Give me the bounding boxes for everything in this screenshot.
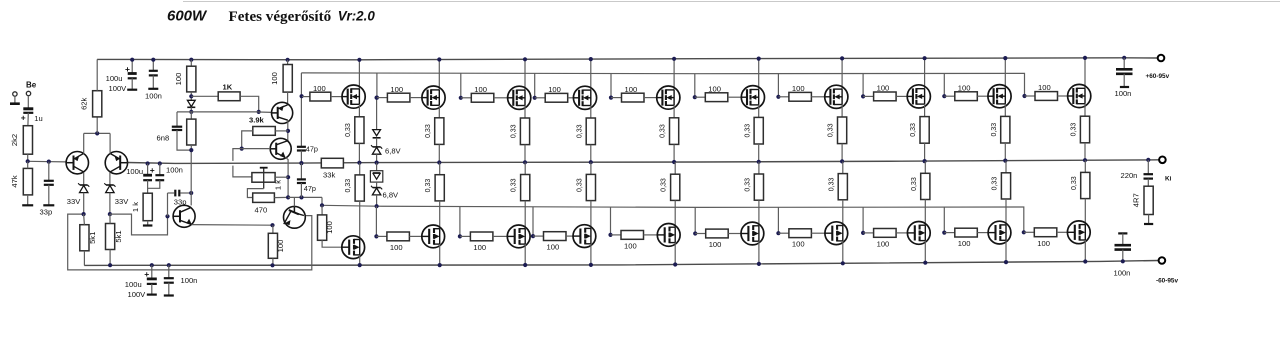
mosfet M5 top	[657, 86, 680, 109]
svg-text:+: +	[125, 64, 130, 74]
node 3.9k junction	[286, 129, 290, 133]
svg-text:0,33: 0,33	[511, 124, 518, 138]
wire source M7 bottom	[842, 161, 844, 173]
wire 0.33 to M6 bottom	[758, 200, 760, 226]
wire 0.33 to M10 bottom	[1084, 199, 1086, 225]
svg-text:0,33: 0,33	[911, 177, 918, 191]
resistor R 100 gate M8 bottom	[863, 229, 896, 238]
node gate M7 bottom	[776, 231, 780, 235]
node drain M9 bottom rail	[1004, 260, 1008, 264]
label 0,33 M2 bottom	[425, 179, 432, 193]
node NFB 100u	[146, 161, 150, 165]
wire source M9 bottom	[1005, 161, 1007, 173]
wire 0.33 M2 top to output	[438, 144, 440, 162]
label 0,33 M3 top	[511, 124, 518, 138]
svg-text:0,33: 0,33	[661, 178, 668, 192]
svg-text:100: 100	[792, 84, 805, 93]
label 33k	[323, 171, 335, 180]
resistor R 100 gate M7 top	[778, 92, 811, 101]
label 100u bottom	[125, 280, 142, 289]
wire Qc base	[293, 197, 295, 206]
wire drain M8 bottom	[924, 241, 926, 263]
svg-text:+60-95v: +60-95v	[1146, 73, 1170, 80]
zener D 33V left	[78, 173, 89, 215]
diode D VAS	[187, 92, 195, 112]
node M6 output rail	[757, 160, 761, 164]
wire bus drop M5 bottom	[610, 207, 612, 235]
capacitor C 33p input	[44, 162, 54, 205]
label title Vr:2.0	[338, 8, 376, 23]
label 1 k trimmer	[273, 180, 282, 190]
svg-text:2k2: 2k2	[10, 134, 19, 146]
wire 4R7 stub	[1144, 215, 1153, 225]
wire source M8 bottom	[924, 161, 926, 173]
wire 0.33 to M9 bottom	[1005, 199, 1007, 225]
resistor R 100 gate M5 top	[611, 93, 644, 102]
resistor R 5k1 left	[80, 214, 89, 265]
label 100 gate M5 bottom	[624, 241, 637, 250]
resistor R 4R7 Zobel	[1144, 186, 1153, 214]
capacitor C 100u bottom decoupling	[144, 265, 157, 294]
wire drain M6 top	[758, 59, 760, 90]
wire 0.33 to M8 bottom	[924, 200, 926, 226]
resistor R 100 gate M10 top	[1025, 92, 1058, 101]
label -60-95v	[1156, 277, 1178, 284]
resistor R 0.33 M4 top	[586, 118, 595, 145]
svg-text:100: 100	[390, 243, 403, 252]
node NFB 100n	[158, 161, 162, 165]
label 0,33 M9 top	[991, 123, 998, 137]
transistor Q2 diff pair right	[105, 152, 127, 174]
label 6,8V upper	[385, 147, 402, 156]
resistor R 0.33 M5 top	[670, 118, 679, 145]
terminal -60-95v	[1159, 257, 1166, 264]
wire bus drop M9 bottom	[943, 207, 945, 233]
svg-text:100u: 100u	[106, 74, 123, 83]
wire drain M9 bottom	[1005, 240, 1007, 262]
svg-text:0,33: 0,33	[744, 178, 751, 192]
wire Qd emitter to Qc emitter	[192, 224, 273, 227]
wire diff tail	[84, 132, 110, 134]
svg-text:100: 100	[624, 241, 637, 250]
node gate M1 top	[300, 94, 304, 98]
wire source M9 top	[1004, 104, 1006, 117]
wire top gate bus	[301, 73, 1024, 96]
label 6,8V lower	[383, 191, 400, 200]
wire 470 right	[274, 196, 288, 198]
mosfet M9 top	[988, 85, 1011, 108]
node drain M5 top rail	[672, 57, 676, 61]
terminal +60-95v	[1158, 55, 1165, 62]
wire drain M3 bottom	[524, 244, 526, 265]
resistor R 5k1 right	[106, 214, 115, 265]
svg-text:220n: 220n	[1121, 171, 1138, 180]
resistor R 0.33 M2 bottom	[435, 175, 444, 201]
wire 0.33 to M7 bottom	[842, 200, 844, 226]
svg-text:100V: 100V	[128, 290, 147, 299]
wire bus drop M6 bottom	[694, 207, 696, 233]
mosfet M10 bottom	[1067, 221, 1090, 244]
wire tail to R 62k	[96, 117, 98, 133]
svg-text:100: 100	[792, 240, 805, 249]
wire bottom gate bus	[322, 205, 1024, 232]
mosfet M6 bottom	[741, 222, 764, 245]
node R100 top rail	[189, 58, 193, 62]
node M8 output rail	[923, 159, 927, 163]
svg-text:33p: 33p	[174, 198, 187, 207]
label 0,33 M10 top	[1071, 123, 1078, 137]
svg-text:100: 100	[958, 239, 971, 248]
wire source M1 bottom	[359, 163, 361, 175]
node M2 output rail	[437, 160, 441, 164]
svg-text:100: 100	[473, 243, 486, 252]
label 0,33 M6 bottom	[744, 178, 751, 192]
resistor R 100 gate M7 bottom	[778, 229, 811, 238]
svg-text:1 k: 1 k	[273, 180, 282, 190]
node drain M4 bottom rail	[589, 263, 593, 267]
wire wiper to 470	[247, 189, 263, 198]
wire source M3 top	[524, 106, 526, 119]
node drain M6 top rail	[757, 57, 761, 61]
svg-text:100V: 100V	[109, 84, 128, 93]
wire Q1 emitter to tail	[83, 133, 85, 153]
wire bus drop M3 top	[460, 73, 462, 98]
svg-text:0,33: 0,33	[576, 178, 583, 192]
resistor R 100 gate M9 top	[944, 92, 977, 101]
svg-text:5k1: 5k1	[114, 230, 123, 242]
label 100 Qc	[276, 240, 285, 253]
label 5k1 left	[88, 232, 97, 244]
wire bias line y197	[288, 196, 322, 198]
label 100 Qa load	[270, 72, 279, 85]
mosfet M1 top	[342, 85, 365, 108]
wire 1K to Qa base	[240, 96, 259, 112]
label 100n bottom right	[1114, 268, 1131, 277]
wire 47p to midrail	[300, 151, 302, 164]
transistor Qc lower driver	[284, 206, 306, 228]
node zener bottom bus	[375, 204, 379, 208]
node drain M6 bottom rail	[757, 262, 761, 266]
wire bias loop left (crossover)	[233, 149, 252, 177]
svg-text:0,33: 0,33	[992, 177, 999, 191]
resistor R 100 gate M6 bottom	[695, 229, 728, 238]
label Ki	[1165, 176, 1172, 183]
node drain M1 bottom rail	[358, 263, 362, 267]
label 100 gate M6 bottom	[709, 240, 722, 249]
label 100 gate M6 top	[708, 84, 721, 93]
mosfet M2 bottom	[422, 225, 445, 248]
resistor R 0.33 M8 bottom	[921, 173, 930, 199]
label 3.9k	[249, 116, 265, 125]
wire 47k to ground	[27, 195, 29, 205]
svg-text:6n8: 6n8	[157, 134, 170, 143]
node gate M8 bottom	[861, 231, 865, 235]
wire drain M3 top	[524, 59, 526, 90]
svg-text:Ki: Ki	[1165, 176, 1172, 183]
svg-text:0,33: 0,33	[345, 179, 352, 193]
label 0,33 M5 bottom	[661, 178, 668, 192]
wire gate M5 bottom	[644, 234, 658, 236]
node M10 output rail	[1083, 158, 1087, 162]
svg-text:0,33: 0,33	[1071, 123, 1078, 137]
label 0,33 M1 bottom	[345, 179, 352, 193]
svg-text:33p: 33p	[40, 208, 53, 217]
mosfet M5 bottom	[657, 224, 680, 247]
label 220n	[1121, 171, 1138, 180]
label 100u	[106, 74, 123, 83]
node drain M8 bottom rail	[923, 261, 927, 265]
svg-text:100n: 100n	[145, 92, 162, 101]
svg-text:1u: 1u	[34, 114, 42, 123]
resistor R 100 gate M1 top	[310, 92, 331, 101]
label 0,33 M7 top	[828, 123, 835, 137]
label 100n	[145, 92, 162, 101]
wire source M2 top	[438, 105, 440, 118]
label 100 gate M7 bottom	[792, 240, 805, 249]
node gate M6 bottom	[693, 231, 697, 235]
capacitor C 47p upper	[297, 147, 306, 151]
node gate M2 top	[375, 96, 379, 100]
wire drain M9 top	[1004, 58, 1006, 88]
svg-text:6,8V: 6,8V	[385, 147, 402, 156]
resistor R 0.33 M6 top	[754, 117, 763, 144]
wire 1u to R 2k2	[27, 113, 29, 126]
wire drain M7 bottom	[842, 241, 844, 263]
wire source M8 top	[924, 104, 926, 117]
label 100 gate M1 top	[313, 84, 326, 93]
resistor R 100 gate M8 top	[863, 92, 896, 101]
node Q2 collector	[108, 212, 112, 216]
label 1u	[34, 114, 42, 123]
boxed diode clamp lower	[370, 163, 382, 182]
node input	[26, 159, 30, 163]
wire source M10 top	[1084, 104, 1086, 117]
svg-text:0,33: 0,33	[345, 123, 352, 137]
svg-text:100u: 100u	[126, 167, 143, 176]
label 0,33 M8 top	[910, 123, 917, 137]
wire gate M10 top	[1058, 95, 1068, 97]
wire gate M1 top	[331, 96, 342, 98]
wire 0.33 M6 top to output	[758, 144, 760, 162]
label 33V right	[115, 197, 129, 206]
resistor R 0.33 M8 top	[920, 117, 929, 144]
label 0,33 M3 bottom	[511, 178, 518, 192]
wire 0.33 M10 top to output	[1084, 143, 1086, 160]
wire 0.33 M5 top to output	[673, 144, 675, 162]
label 0,33 M7 bottom	[828, 177, 835, 191]
wire drain M10 top	[1084, 58, 1086, 88]
wire Qa collector	[287, 92, 289, 103]
node M3 output rail	[523, 160, 527, 164]
wire source M10 bottom	[1084, 160, 1086, 172]
svg-text:+: +	[150, 165, 155, 175]
wire 2k2 to input node	[27, 154, 29, 161]
node top 100n	[1122, 56, 1126, 60]
resistor R 100 gate M2 bottom	[376, 232, 409, 241]
label 100u NFB	[126, 167, 143, 176]
resistor R 3.9k	[253, 127, 275, 136]
mosfet M8 top	[907, 85, 930, 108]
node M4 output rail	[589, 160, 593, 164]
resistor R 0.33 M10 bottom	[1081, 172, 1090, 198]
svg-text:100: 100	[313, 84, 326, 93]
svg-text:100: 100	[877, 239, 890, 248]
mosfet M2 top	[422, 86, 445, 109]
node gate M2 bottom	[374, 234, 378, 238]
node Qa load top rail	[286, 58, 290, 62]
label 5k1 right	[114, 230, 123, 242]
wire source M7 top	[841, 105, 843, 118]
wire Qb emitter column	[285, 157, 288, 197]
resistor R 0.33 M3 top	[520, 118, 529, 145]
node gate M9 top	[942, 94, 946, 98]
wire 0.33 M7 top to output	[841, 144, 843, 162]
node drain M3 top rail	[523, 57, 527, 61]
capacitor C 100u NFB	[143, 164, 155, 194]
ground below 47k	[22, 204, 33, 206]
node gate M9 bottom	[942, 231, 946, 235]
label 47p upper	[306, 144, 318, 153]
svg-text:100n: 100n	[1115, 89, 1132, 98]
wire source M4 top	[590, 106, 592, 119]
resistor R 100 gate M4 top	[535, 93, 568, 102]
node 470 right	[286, 195, 290, 199]
mosfet M7 bottom	[825, 222, 848, 245]
node diode anode / 1K	[189, 94, 193, 98]
svg-text:+: +	[21, 112, 26, 122]
mosfet M4 top	[573, 86, 596, 109]
node drain M2 top rail	[437, 57, 441, 61]
wire source M5 top	[673, 105, 675, 118]
wire drain M5 bottom	[674, 243, 676, 265]
zener D 33V right	[104, 173, 115, 215]
svg-text:100: 100	[877, 84, 890, 93]
label 100 gate M3 top	[474, 85, 487, 94]
node drain M3 bottom rail	[523, 263, 527, 267]
wire source M6 top	[758, 105, 760, 118]
wire Qd collector column	[190, 150, 192, 205]
resistor R 100 gate M3 bottom	[460, 232, 493, 241]
wire top supply rail +60-95v	[97, 58, 1158, 60]
resistor R 0.33 M2 top	[435, 118, 444, 145]
node Q1 collector	[82, 212, 86, 216]
wire source M2 bottom	[439, 163, 441, 175]
svg-text:Vr:2.0: Vr:2.0	[338, 8, 376, 23]
node drain M2 bottom rail	[438, 263, 442, 267]
wire bus drop M3 bottom	[459, 207, 461, 237]
wire 3.9k left to Qb base	[242, 131, 253, 149]
label 470	[255, 206, 268, 215]
svg-text:33k: 33k	[323, 171, 335, 180]
wire gate M6 bottom	[728, 233, 741, 235]
terminal Ki	[1159, 157, 1166, 164]
node input terminal lower (gnd)	[13, 92, 17, 96]
wire gate M7 top	[811, 96, 824, 98]
wire 1K feed	[191, 95, 218, 97]
wire 3.9k right	[275, 130, 288, 132]
label 100V	[109, 84, 128, 93]
node gate M3 bottom	[458, 234, 462, 238]
wire drain M7 top	[841, 58, 843, 89]
label 1 k NFB	[131, 202, 140, 212]
mosfet M1 bottom	[342, 236, 365, 259]
trimmer P 1k bias	[252, 168, 275, 189]
resistor R 0.33 M9 top	[1001, 116, 1010, 143]
wire gate feed M1 top	[302, 96, 310, 98]
svg-text:100: 100	[1038, 83, 1051, 92]
wire gate M9 bottom	[977, 232, 988, 234]
mosfet M3 top	[508, 86, 531, 109]
label 33V left	[67, 197, 81, 206]
node drain M4 top rail	[589, 57, 593, 61]
svg-text:100: 100	[547, 243, 560, 252]
capacitor C 220n Zobel	[1144, 160, 1154, 186]
capacitor C 100n bottom decoupling	[164, 265, 174, 295]
wire bus drop M7 top	[777, 74, 779, 97]
node gate M7 top	[776, 95, 780, 99]
resistor R 1k NFB	[143, 193, 152, 221]
svg-text:100: 100	[474, 85, 487, 94]
node gate M5 bottom	[608, 233, 612, 237]
diode D clamp upper	[373, 130, 381, 138]
svg-text:62k: 62k	[80, 97, 89, 109]
resistor R 0.33 M7 bottom	[838, 174, 847, 200]
wire bus drop M2 bottom	[375, 206, 377, 236]
wire gate M4 bottom	[566, 235, 573, 237]
resistor R 47k	[23, 161, 32, 195]
wire 62k to top rail	[96, 59, 98, 90]
label 100 VAS left	[174, 73, 183, 86]
node 47p bottom junction	[299, 195, 303, 199]
svg-text:0,33: 0,33	[991, 123, 998, 137]
wire gnd terminal stem	[14, 96, 16, 103]
svg-text:100: 100	[276, 240, 285, 253]
node Qc emitter	[270, 223, 274, 227]
capacitor C 100n bottom right	[1115, 233, 1132, 261]
wire Be terminal to C 1u	[27, 96, 29, 108]
svg-text:47k: 47k	[10, 175, 19, 187]
wire gate M5 top	[644, 97, 657, 99]
ground below 1k	[143, 221, 153, 226]
label 100 gate M8 top	[877, 84, 890, 93]
wire gate M3 top	[494, 97, 508, 99]
svg-text:Fetes végerősítő: Fetes végerősítő	[229, 9, 332, 25]
node Zobel	[1146, 158, 1150, 162]
svg-text:-60-95v: -60-95v	[1156, 277, 1178, 284]
capacitor C 100u rail decoupling	[125, 60, 137, 90]
node bottom 100u	[150, 263, 154, 267]
svg-text:6,8V: 6,8V	[383, 191, 400, 200]
svg-text:0,33: 0,33	[910, 123, 917, 137]
wire 0.33 to M5 bottom	[674, 200, 676, 227]
svg-text:0,33: 0,33	[1071, 176, 1078, 190]
node 33p tap	[47, 160, 51, 164]
node Qa base junction	[257, 110, 261, 114]
wire input node to Q1 base	[28, 160, 66, 163]
label 100n top right	[1115, 89, 1132, 98]
ground below 33p	[43, 204, 54, 206]
svg-text:100n: 100n	[166, 166, 183, 175]
label 100 gate M1 bottom	[325, 221, 334, 234]
svg-text:0,33: 0,33	[744, 124, 751, 138]
wire trimmer right	[275, 176, 288, 178]
wire gate M7 bottom	[811, 232, 825, 234]
svg-text:0,33: 0,33	[828, 177, 835, 191]
resistor R 0.33 M10 top	[1080, 116, 1089, 143]
node Qc 100 bottom rail	[270, 263, 274, 267]
label 100 gate M9 bottom	[958, 239, 971, 248]
wire 0.33 M4 top to output	[590, 145, 592, 163]
